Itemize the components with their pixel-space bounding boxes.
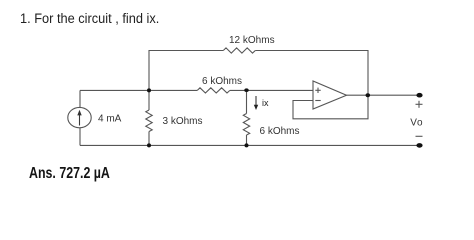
wire 6k vertical bottom lead bbox=[246, 135, 248, 145]
label + (Vo positive) bbox=[416, 101, 423, 108]
node bottom left junction bbox=[147, 143, 151, 147]
svg-text:6 kOhms: 6 kOhms bbox=[202, 76, 242, 87]
wire feedback loop (output to - input) bbox=[293, 95, 368, 119]
wire 3k bottom lead bbox=[148, 132, 150, 146]
label - (Vo negative) bbox=[416, 135, 423, 137]
wire top left (up from node A and across to 12k) bbox=[149, 51, 223, 91]
svg-text:Vo: Vo bbox=[410, 118, 423, 129]
svg-text:6 kOhms: 6 kOhms bbox=[260, 126, 300, 137]
op-amp U1 bbox=[313, 81, 347, 109]
wire 3k top lead bbox=[148, 90, 150, 110]
terminal Vo + bbox=[416, 93, 422, 98]
wire top right (12k to op-amp output node) bbox=[255, 51, 368, 96]
current source I1 4 mA bbox=[68, 107, 91, 127]
answer text bbox=[29, 165, 110, 183]
wire output bbox=[347, 94, 420, 96]
node bottom right junction bbox=[245, 143, 249, 147]
node ix (6k vertical top junction) bbox=[244, 88, 248, 92]
wire middle right (node ix to op-amp + input) bbox=[230, 89, 313, 91]
wire middle left (source to 6k) bbox=[80, 89, 197, 91]
wire 6k vertical top lead bbox=[246, 90, 248, 113]
svg-text:3 kOhms: 3 kOhms bbox=[163, 116, 203, 127]
node output junction bbox=[366, 93, 371, 97]
terminal Vo - bbox=[416, 143, 422, 148]
resistor R2 6 kOhms (horizontal, middle) bbox=[197, 88, 230, 93]
resistor R3 3 kOhms (vertical) bbox=[146, 110, 152, 132]
svg-text:ix: ix bbox=[262, 98, 269, 108]
wire bottom rail bbox=[80, 144, 420, 146]
title text bbox=[20, 11, 159, 26]
resistor R1 12 kOhms (horizontal, top) bbox=[223, 48, 255, 53]
node A (3k top junction) bbox=[147, 88, 151, 92]
resistor R4 6 kOhms (vertical) bbox=[243, 114, 249, 136]
wire left branch top bbox=[79, 90, 81, 107]
current arrow ix bbox=[254, 96, 258, 110]
svg-text:12 kOhms: 12 kOhms bbox=[229, 35, 275, 46]
wire left branch bottom bbox=[79, 128, 81, 146]
svg-text:4 mA: 4 mA bbox=[98, 114, 122, 125]
